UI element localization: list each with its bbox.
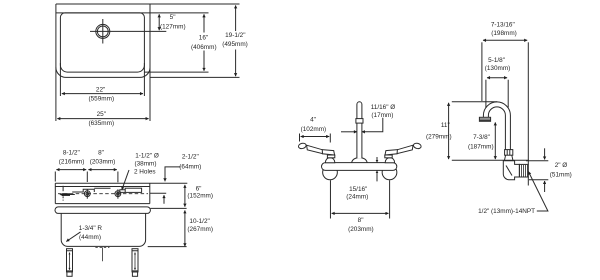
apron bottom extension line xyxy=(148,246,187,248)
svg-text:4": 4" xyxy=(310,116,316,123)
backsplash top edge + extension to 6in dim xyxy=(55,182,187,184)
svg-text:(152mm): (152mm) xyxy=(187,193,213,200)
riser nut facets xyxy=(507,150,510,156)
holes dashed centerline xyxy=(58,193,148,195)
punching tab right xyxy=(125,188,141,192)
svg-text:(495mm): (495mm) xyxy=(222,41,248,48)
svg-text:19-1/2": 19-1/2" xyxy=(225,32,245,39)
svg-text:(559mm): (559mm) xyxy=(89,96,115,103)
gooseneck arc outer xyxy=(483,102,510,150)
halo 19-1/2 xyxy=(220,31,251,50)
svg-text:7-13/16": 7-13/16" xyxy=(491,21,515,28)
drain centerline below bowl xyxy=(101,247,103,261)
dim 7-3/8 arrow xyxy=(494,122,496,159)
spout hub xyxy=(351,158,367,165)
svg-text:(267mm): (267mm) xyxy=(187,226,213,233)
dim 22in line xyxy=(62,93,143,95)
leader 1-1/2 holes xyxy=(122,170,129,190)
faucet hole left xyxy=(84,191,90,197)
svg-text:15/16": 15/16" xyxy=(349,186,367,193)
svg-text:1-3/4" R: 1-3/4" R xyxy=(79,225,103,232)
drain centerline horizontal (5in lower extension) xyxy=(90,30,166,32)
svg-text:8": 8" xyxy=(358,217,364,224)
svg-text:(279mm): (279mm) xyxy=(426,134,452,141)
2in dia bottom extension xyxy=(529,179,549,181)
right leg ticks xyxy=(132,251,138,271)
spout band xyxy=(356,119,363,124)
svg-text:11/16" Ø: 11/16" Ø xyxy=(371,104,396,111)
spout tube xyxy=(357,102,362,159)
wall / 7-13/16 right extension xyxy=(527,42,529,164)
elbow shade line xyxy=(506,166,512,176)
riser transition xyxy=(504,155,513,160)
bonnet dome left xyxy=(325,158,334,163)
bonnet nut left xyxy=(327,155,334,158)
outlet flange xyxy=(479,117,490,121)
backsplash left edge xyxy=(54,183,56,203)
svg-text:(44mm): (44mm) xyxy=(79,234,101,241)
11/16 right arrow + elbow xyxy=(362,118,383,132)
escutcheon left xyxy=(323,165,338,180)
bowl bottom 16in extension line xyxy=(144,71,208,73)
faucet body xyxy=(322,163,397,171)
15/16 top arrow xyxy=(376,157,378,162)
svg-text:(198mm): (198mm) xyxy=(491,30,517,37)
backsplash right edge xyxy=(149,183,151,203)
dim 16in arrow xyxy=(203,14,205,71)
faucet hole left dot xyxy=(86,192,89,195)
8in faucet extension right xyxy=(389,180,391,218)
svg-text:1-1/2" Ø: 1-1/2" Ø xyxy=(135,153,159,160)
2in dia top arrow xyxy=(544,148,546,159)
svg-text:(130mm): (130mm) xyxy=(485,65,511,72)
nipple outline xyxy=(519,164,528,177)
sink outer outline bottom with rounded corners xyxy=(56,68,150,78)
bowl 22in extension line right xyxy=(143,63,145,96)
svg-text:2 Holes: 2 Holes xyxy=(134,169,156,176)
hole crosshair left xyxy=(86,189,88,198)
punching step right xyxy=(120,190,125,193)
4in extension right xyxy=(329,134,331,143)
faucet hole right dot xyxy=(117,192,120,195)
bowl apron outline xyxy=(61,213,145,246)
backsplash roll line xyxy=(55,186,150,188)
5-1/8 left extension xyxy=(485,80,487,108)
svg-text:(64mm): (64mm) xyxy=(179,164,201,171)
dim 10-1/2 arrow xyxy=(184,210,186,246)
dim 8 line xyxy=(88,169,116,171)
faucet hole right xyxy=(115,191,121,197)
svg-text:(102mm): (102mm) xyxy=(301,126,327,133)
svg-text:(216mm): (216mm) xyxy=(59,158,85,165)
left leg adjuster arrow xyxy=(69,253,71,270)
svg-text:5-1/8": 5-1/8" xyxy=(488,57,505,64)
hole centerline extension right xyxy=(150,192,166,194)
dim 8in faucet line xyxy=(332,212,389,214)
svg-text:(51mm): (51mm) xyxy=(550,172,572,179)
leader 1-3/4 R xyxy=(66,232,80,242)
svg-text:2" Ø: 2" Ø xyxy=(555,162,568,169)
right leg outline xyxy=(132,249,138,272)
hanger slot tick xyxy=(62,186,64,191)
svg-text:(635mm): (635mm) xyxy=(89,120,115,127)
riser nut xyxy=(505,150,513,156)
sink outer outline top edge + 19-1/2 extension line xyxy=(56,3,240,5)
svg-text:(17mm): (17mm) xyxy=(371,112,393,119)
left leg outline xyxy=(67,249,73,272)
8in faucet extension left xyxy=(329,180,331,218)
svg-text:(203mm): (203mm) xyxy=(348,226,374,233)
5-1/8 right extension xyxy=(507,80,509,108)
svg-text:6": 6" xyxy=(196,186,202,193)
handle left blade xyxy=(307,145,323,153)
11in bottom extension / mounting centerline xyxy=(452,159,529,161)
svg-text:8": 8" xyxy=(98,149,104,156)
bonnet nut right xyxy=(385,155,392,158)
11in top extension xyxy=(452,101,497,103)
rim roll pill xyxy=(55,207,150,214)
hole crosshair right xyxy=(117,189,119,198)
hanger slot bar xyxy=(62,193,70,196)
dim 4in line xyxy=(301,136,330,138)
svg-text:(24mm): (24mm) xyxy=(346,194,368,201)
dim 5-1/8 line xyxy=(487,77,507,79)
nipple thread ridges xyxy=(521,165,527,177)
svg-text:8-1/2": 8-1/2" xyxy=(63,149,80,156)
dim 5in arrow xyxy=(158,14,160,30)
punching tab middle xyxy=(94,187,110,189)
gooseneck arc inner xyxy=(488,107,505,150)
hanger slot tail xyxy=(70,194,75,196)
handle left hub xyxy=(322,150,335,155)
dim 25in line xyxy=(57,118,148,120)
7-13/16 left extension xyxy=(481,42,483,101)
ledge line / bowl top + 16in extension line xyxy=(56,12,209,14)
bowl rounded rect xyxy=(60,13,144,72)
left foot xyxy=(67,272,72,276)
svg-text:22": 22" xyxy=(96,86,105,93)
svg-text:2-1/2": 2-1/2" xyxy=(182,153,199,160)
svg-text:(127mm): (127mm) xyxy=(160,23,186,30)
dim 6in arrow xyxy=(184,185,186,207)
svg-text:7-3/8": 7-3/8" xyxy=(473,134,490,141)
dim 19-1/2 arrow xyxy=(235,5,237,76)
right foot xyxy=(132,272,137,276)
drain inner circle xyxy=(97,26,108,37)
left leg ticks xyxy=(67,251,73,271)
svg-text:(406mm): (406mm) xyxy=(191,44,217,51)
drain hidden dashes xyxy=(95,246,109,248)
halo 16in xyxy=(190,33,219,51)
handle right hub xyxy=(385,150,398,155)
svg-text:(187mm): (187mm) xyxy=(468,143,494,150)
rim extension line to 6/10-1/2 dims xyxy=(150,207,186,209)
hanger slot arrow xyxy=(59,193,63,196)
backsplash bottom line xyxy=(55,203,150,205)
sink outer outline left edge + 25in extension xyxy=(55,4,57,121)
8-1/2 extension left xyxy=(54,172,56,182)
handle right blade xyxy=(397,145,413,153)
svg-text:1/2" (13mm)-14NPT: 1/2" (13mm)-14NPT xyxy=(478,208,535,215)
hanger slot tick dashed xyxy=(62,196,64,200)
dim 7-13/16 line xyxy=(483,39,527,41)
11/16 left arrow xyxy=(341,131,357,133)
15/16 bottom arrow xyxy=(376,171,378,182)
svg-text:5": 5" xyxy=(170,14,176,21)
sink outer outline right edge + 25in extension xyxy=(149,4,151,121)
outlet flange midline xyxy=(479,118,490,120)
handle right knob xyxy=(413,142,422,149)
2-1/2 up arrow xyxy=(163,195,165,204)
2in dia bottom arrow xyxy=(544,181,546,192)
svg-text:10-1/2": 10-1/2" xyxy=(189,218,209,225)
19-1/2 bottom extension line xyxy=(150,76,240,78)
8 extension right xyxy=(117,172,119,183)
svg-text:11": 11" xyxy=(441,122,450,129)
2in dia top extension xyxy=(526,160,548,162)
dim 8-1/2 line xyxy=(56,169,86,171)
svg-text:25": 25" xyxy=(97,111,106,118)
4in extension left xyxy=(299,134,301,142)
wall line lower xyxy=(527,177,529,186)
elbow body xyxy=(503,161,519,180)
bonnet dome right xyxy=(385,158,394,163)
outlet flange lower line xyxy=(480,119,490,121)
leader 2-1/2 down arrow xyxy=(165,167,181,181)
bowl 22in extension line left xyxy=(59,63,61,96)
svg-text:(38mm): (38mm) xyxy=(134,161,156,168)
NPT leader xyxy=(528,172,548,212)
dim 11in arrow xyxy=(448,103,450,159)
drain centerline vertical xyxy=(102,19,104,44)
escutcheon right xyxy=(382,165,397,180)
drain outer circle xyxy=(96,24,110,38)
punching tab left xyxy=(72,189,94,192)
svg-text:16": 16" xyxy=(199,35,208,42)
right leg adjuster arrow xyxy=(134,253,136,270)
svg-text:(203mm): (203mm) xyxy=(90,158,116,165)
shared extension middle xyxy=(86,172,88,183)
handle left knob xyxy=(298,142,307,149)
